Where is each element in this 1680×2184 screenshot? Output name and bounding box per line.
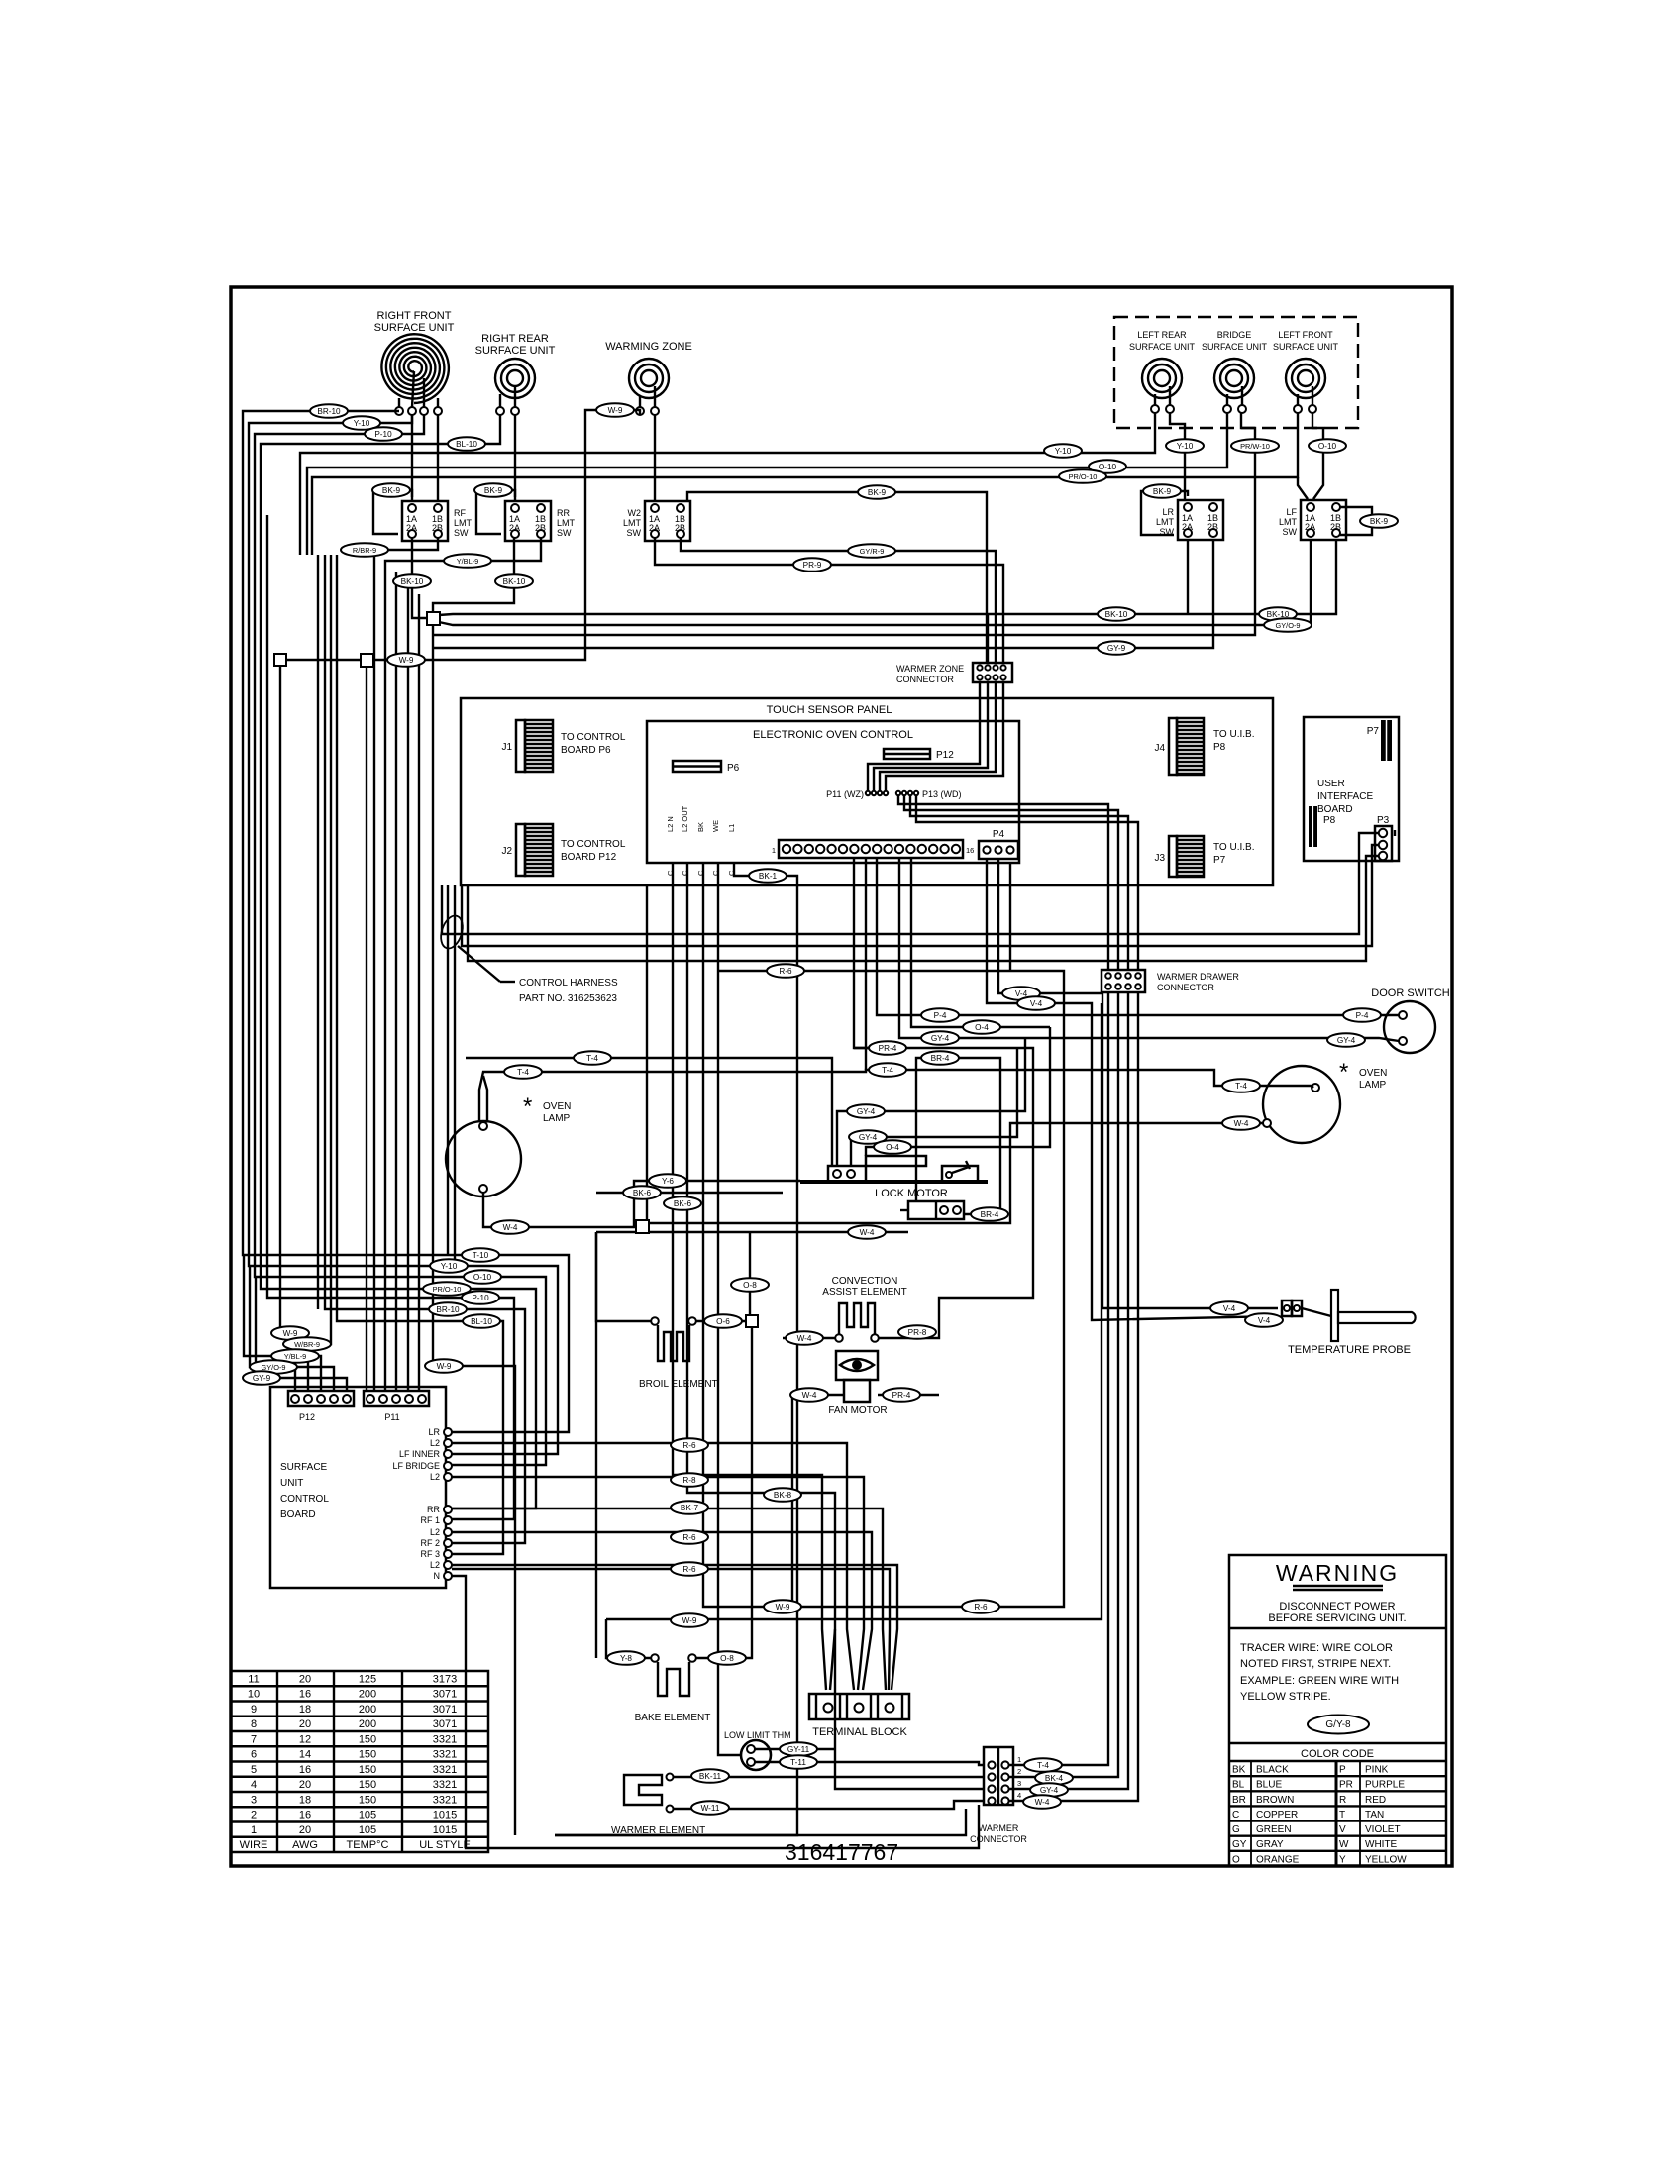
svg-text:BL: BL [1232,1780,1245,1791]
svg-text:CONNECTOR: CONNECTOR [896,675,954,684]
wire L2 R-6 y1457 [452,1443,854,1690]
wire tag O-10 [1089,460,1126,473]
wire tag O-10 [464,1270,501,1284]
wire tag W-11 [691,1801,729,1815]
connector P8 [1309,806,1336,847]
svg-text:O-10: O-10 [1099,463,1117,471]
wire tag BK-9 [858,485,895,499]
svg-text:J3: J3 [1154,853,1165,864]
svg-text:TEMP°C: TEMP°C [347,1839,389,1851]
wire tag W-4 [848,1225,886,1239]
svg-text:18: 18 [299,1704,311,1716]
svg-text:GY-4: GY-4 [1040,1786,1059,1795]
svg-text:V-4: V-4 [1258,1316,1271,1325]
wire W-9 to P12 pin1 [280,666,295,1391]
svg-text:P13 (WD): P13 (WD) [922,789,962,799]
wire R-6 y1622 [718,971,1064,1607]
wire tag Y-10 [1166,439,1204,453]
svg-text:W-9: W-9 [399,656,414,665]
wire tag O-6 [704,1314,742,1328]
svg-text:WARNING: WARNING [1276,1560,1399,1586]
svg-text:SW: SW [454,528,469,538]
svg-text:L1: L1 [727,824,736,832]
wire to P12 pin4 [250,1266,334,1391]
svg-text:Y/BL-9: Y/BL-9 [284,1352,307,1361]
wire tag BK-10 [1259,607,1297,621]
svg-text:LR: LR [1162,507,1174,517]
svg-text:P12: P12 [936,750,954,761]
svg-text:CONTROL: CONTROL [280,1494,329,1505]
node square broil [746,1315,758,1327]
svg-text:Y-10: Y-10 [1055,447,1072,456]
svg-text:W-4: W-4 [860,1228,875,1237]
EOC 16 pin connector row [772,840,975,858]
svg-text:R-8: R-8 [682,1476,696,1485]
wire drawer to warmer row4 W-4 [1009,992,1138,1801]
svg-text:W-9: W-9 [437,1362,452,1371]
wire stub BK-8 down [687,863,984,1789]
svg-text:BL-10: BL-10 [471,1317,492,1326]
svg-text:Y: Y [1339,1854,1346,1865]
wire tag BR-10 [310,404,348,418]
wire tag O-4 [874,1140,911,1154]
svg-text:P8: P8 [1323,815,1336,826]
wire tag W-4 [1222,1116,1260,1130]
svg-text:RIGHT REAR: RIGHT REAR [481,333,549,345]
svg-text:2: 2 [1017,1767,1021,1776]
svg-text:W: W [1339,1839,1349,1850]
wire tag Y-10 [430,1259,468,1273]
wire RF coil to switch 1A [411,415,413,501]
wire GY-4 lock2 [851,1048,1017,1166]
svg-text:T-11: T-11 [790,1758,806,1767]
svg-text:BK-10: BK-10 [1105,610,1128,619]
svg-text:L2: L2 [430,1527,440,1537]
wire tag Y-10 [343,416,380,430]
svg-text:T-4: T-4 [1235,1082,1247,1091]
wire tag O-8 [731,1278,769,1292]
wire PR/O-10 left front unit [312,413,1298,555]
user interface board [1304,717,1399,861]
svg-text:TOUCH SENSOR PANEL: TOUCH SENSOR PANEL [767,704,892,716]
terminal block [809,1694,909,1738]
svg-text:200: 200 [359,1718,376,1730]
wire low limit GY-11 [755,1748,835,1750]
svg-text:TRACER WIRE: WIRE COLOR: TRACER WIRE: WIRE COLOR [1240,1642,1393,1654]
surface unit RF coil [374,310,455,415]
wire N bottom [452,1576,979,1848]
svg-text:BK-10: BK-10 [401,577,424,586]
wire harness a [447,885,449,1255]
svg-text:125: 125 [359,1673,376,1685]
svg-text:LMT: LMT [1156,517,1175,527]
svg-text:20: 20 [299,1824,311,1836]
wire tag PR/O-10 [423,1282,471,1296]
svg-text:2: 2 [251,1810,257,1821]
svg-text:2A: 2A [1182,522,1193,532]
wire left vertical x321 [317,555,319,1309]
svg-text:TO U.I.B.: TO U.I.B. [1213,842,1255,853]
wire tag GY-9 [243,1371,280,1385]
svg-text:2A: 2A [649,523,660,533]
svg-text:105: 105 [359,1824,376,1836]
wire tag BK-10 [495,574,533,588]
svg-text:W-4: W-4 [1035,1798,1050,1807]
wire P13 pin2 drawer [904,796,1118,970]
svg-text:LMT: LMT [623,518,642,528]
wire tag PR/O-10 [1059,469,1106,483]
svg-text:150: 150 [359,1794,376,1806]
wire stub L2N down [673,863,826,1690]
wire tag P-4 [921,1008,959,1022]
svg-text:LAMP: LAMP [543,1113,571,1124]
wire tag GY-9 [1098,641,1135,655]
wire P3-3 harness [468,856,1379,961]
wire tag T-4 [574,1051,611,1065]
svg-text:Y-8: Y-8 [620,1654,632,1663]
svg-text:3321: 3321 [433,1779,457,1791]
wire W-4 fan upper [648,1123,1263,1223]
connector P6 bar [673,761,740,774]
svg-text:Y-10: Y-10 [354,419,370,428]
svg-text:2B: 2B [535,523,546,533]
svg-text:150: 150 [359,1764,376,1776]
wire fan L2 left [830,1629,835,1690]
wire tag T-4 [1024,1758,1062,1772]
svg-text:SURFACE UNIT: SURFACE UNIT [1273,342,1339,352]
wire tag PR-8 [898,1325,936,1339]
wire tag BR-10 [429,1302,467,1316]
wire tag W-4 [786,1331,823,1345]
svg-text:LF INNER: LF INNER [399,1449,441,1459]
svg-text:LF: LF [1286,507,1297,517]
svg-text:*: * [1339,1059,1348,1086]
svg-text:SW: SW [627,528,642,538]
svg-text:RF: RF [454,508,466,518]
wire zone pin4 to P11WZ [886,682,1003,790]
limit switch W2 LMT SW [623,501,690,541]
wire Y-6 y1192 [634,1181,800,1227]
svg-text:SURFACE UNIT: SURFACE UNIT [374,322,455,334]
wire P3-2 harness [462,845,1379,946]
svg-text:LOW LIMIT THM: LOW LIMIT THM [724,1730,791,1740]
wire tag V-4 [1017,996,1055,1010]
wire tag W-9 [271,1326,309,1340]
wire y654 LR 2B [433,540,1213,648]
svg-text:BK-8: BK-8 [774,1491,792,1500]
wire tag BK-1 [749,869,787,883]
svg-text:2A: 2A [509,523,520,533]
svg-text:2A: 2A [406,523,417,533]
svg-text:J2: J2 [501,846,512,857]
svg-text:TERMINAL BLOCK: TERMINAL BLOCK [812,1726,907,1738]
wire V-4 probe upper [998,859,1278,1308]
wire to P12 pin3 [244,1255,321,1391]
wire LR BK-9 jumper [1141,491,1188,535]
surface unit coil LEFT FRONT [1273,330,1339,413]
svg-text:T-10: T-10 [472,1251,489,1260]
svg-text:W-4: W-4 [797,1334,812,1343]
svg-text:P12: P12 [299,1412,315,1422]
svg-text:2B: 2B [1330,522,1341,532]
wire tag V-4 [1210,1301,1248,1315]
wire tag T-4 [504,1065,542,1079]
svg-text:GY-9: GY-9 [1107,644,1126,653]
svg-text:COLOR CODE: COLOR CODE [1301,1748,1374,1760]
wire tag T-4 [869,1063,906,1077]
svg-text:BK-10: BK-10 [503,577,526,586]
svg-text:P7: P7 [1367,726,1380,737]
wire W-4 fan lower [596,1231,908,1233]
wire RF coil to switch 1B [437,415,439,501]
svg-text:12: 12 [299,1733,311,1745]
wire L2 R-6 y1546 [452,1532,872,1690]
svg-text:UNIT: UNIT [280,1478,303,1489]
svg-text:L2: L2 [430,1438,440,1448]
wire tag W-9 [596,403,634,417]
svg-text:GY-4: GY-4 [859,1133,878,1142]
svg-text:R/BR-9: R/BR-9 [353,546,376,555]
svg-text:OVEN: OVEN [543,1101,571,1112]
svg-text:BR-4: BR-4 [981,1210,999,1219]
svg-text:BK-9: BK-9 [868,488,887,497]
EOC stub pin labels [666,805,736,876]
wire tag example G/Y-8 [1308,1716,1369,1734]
svg-text:BEFORE SERVICING UNIT.: BEFORE SERVICING UNIT. [1268,1612,1406,1624]
svg-text:T-4: T-4 [517,1068,529,1077]
wire tag BK-10 [1098,607,1135,621]
wire tag BR-4 [971,1207,1008,1221]
svg-text:Y-10: Y-10 [1177,442,1194,451]
wire GY-9 bridge return [432,624,434,1366]
svg-text:FAN MOTOR: FAN MOTOR [828,1405,887,1416]
svg-text:COPPER: COPPER [1256,1810,1298,1820]
svg-text:RR: RR [427,1505,440,1514]
wire tag T-4 [1222,1079,1260,1092]
wire R-6 P4 link [1009,863,1011,971]
svg-text:11: 11 [248,1673,259,1685]
wire to P11 pin5 [418,594,420,1391]
wire W-4 fan motor [792,1395,844,1607]
svg-text:BK-9: BK-9 [382,486,401,495]
svg-text:P4: P4 [993,829,1005,840]
wire zone pin3 to P11WZ [880,682,996,790]
svg-text:L2 OUT: L2 OUT [681,805,689,832]
wire GY-4 lock1 [837,1038,1025,1166]
wire W-9 node link [286,659,361,661]
svg-text:NOTED FIRST, STRIPE NEXT.: NOTED FIRST, STRIPE NEXT. [1240,1658,1391,1670]
wire tag GY/R-9 [848,544,895,558]
wire gauge table [231,1671,488,1852]
svg-text:DOOR SWITCH: DOOR SWITCH [1371,988,1449,999]
wire O-10 bridge unit [307,413,1227,555]
wire V-4 probe lower [987,859,1278,1320]
wire PR-9 W2 2A [655,538,1003,663]
wire BR-10 RF t1 [243,411,569,1432]
svg-text:CONNECTOR: CONNECTOR [1157,983,1214,992]
oven lamp right [1263,1059,1387,1143]
wire W-9 y1379 [433,1366,515,1835]
svg-text:1015: 1015 [433,1810,457,1821]
svg-text:VIOLET: VIOLET [1365,1824,1401,1835]
svg-text:V-4: V-4 [1030,999,1043,1008]
svg-text:P6: P6 [727,763,740,774]
wire L2 y1580 [452,1565,897,1690]
svg-text:P7: P7 [1213,855,1226,866]
temperature probe [1282,1290,1416,1356]
svg-text:LMT: LMT [1279,517,1298,527]
svg-text:GREEN: GREEN [1256,1824,1292,1835]
svg-text:3173: 3173 [433,1673,457,1685]
wire node fan upper BK-10 [439,540,1336,615]
svg-text:16: 16 [299,1689,311,1701]
wire tag T-11 [780,1755,817,1769]
surface unit control board [270,1387,446,1588]
svg-text:BK-9: BK-9 [1153,487,1172,496]
dashed enclosure left surface units [1114,317,1358,428]
svg-text:G: G [1232,1824,1240,1835]
wire RR BK-7 y1523 [452,1508,886,1690]
wire L2 bottom y1853 [555,1809,966,1835]
warmer zone connector [896,663,1012,684]
wire tag O-8 [708,1651,746,1665]
wire tag W-4 [491,1220,529,1234]
wire tag BK-6 [664,1196,701,1210]
wire tag Y/BL-9 [444,554,491,568]
wire T-4 lamp net [479,1070,1313,1122]
svg-text:3321: 3321 [433,1733,457,1745]
svg-text:RIGHT FRONT: RIGHT FRONT [377,310,452,322]
svg-text:GY-4: GY-4 [857,1107,876,1116]
svg-text:3321: 3321 [433,1794,457,1806]
svg-text:BL-10: BL-10 [456,440,477,449]
wire tag GY-11 [780,1742,817,1756]
wire tag BL-10 [448,437,485,451]
wire W-9 warming zone [367,410,640,1391]
svg-text:P-10: P-10 [472,1294,489,1302]
svg-text:RF 1: RF 1 [420,1515,440,1525]
wire LR 2A down [1187,540,1189,614]
svg-text:O-10: O-10 [473,1273,492,1282]
wire RR coil to switch 1A [514,415,516,501]
svg-text:3321: 3321 [433,1749,457,1761]
wire P3-1 harness [442,833,1379,934]
svg-text:LEFT FRONT: LEFT FRONT [1278,330,1333,340]
wire BL-10 to RF3 [337,555,503,1554]
svg-text:P-4: P-4 [1356,1011,1369,1020]
wire tag Y/BL-9 [271,1349,319,1363]
wire BK-10 RR 2A down [433,538,514,612]
svg-text:WHITE: WHITE [1365,1839,1398,1850]
svg-text:1: 1 [772,846,776,855]
wire tag R-6 [671,1438,708,1452]
svg-text:*: * [523,1093,532,1120]
wire stub W down y1635 [718,863,741,1755]
wire tag T-10 [462,1248,499,1262]
svg-text:4: 4 [1017,1791,1021,1800]
svg-text:UL STYLE: UL STYLE [419,1839,471,1851]
svg-text:1: 1 [1017,1755,1021,1764]
wire tag BK-9 [372,483,410,497]
svg-text:PINK: PINK [1365,1765,1389,1776]
svg-text:1015: 1015 [433,1824,457,1836]
wire tag P-4 [1343,1008,1381,1022]
surface unit RR coil [475,333,556,415]
surface unit coil LEFT REAR [1129,330,1196,413]
svg-text:R-6: R-6 [974,1603,988,1612]
svg-text:C: C [1232,1810,1239,1820]
svg-text:T-4: T-4 [586,1054,598,1063]
svg-text:O: O [1232,1854,1240,1865]
svg-text:3071: 3071 [433,1718,457,1730]
svg-text:O-8: O-8 [743,1281,757,1290]
svg-text:WIRE: WIRE [240,1839,268,1851]
svg-text:CONTROL HARNESS: CONTROL HARNESS [519,978,618,988]
svg-text:O-4: O-4 [886,1143,899,1152]
wire PR-4 convection [879,1048,1033,1338]
wire LF 1A V left [1298,477,1308,499]
wire to P11 pin3 [395,572,397,1391]
wire W-4 lock below [900,1209,908,1211]
wire Y/BL-9 RR 2B to P11 [385,538,541,1391]
svg-text:GY-4: GY-4 [1337,1036,1356,1045]
svg-text:W-9: W-9 [682,1616,697,1625]
svg-text:3: 3 [1017,1779,1021,1788]
svg-text:BOARD: BOARD [280,1509,316,1520]
wire tag BL-10 [463,1314,500,1328]
svg-text:SURFACE: SURFACE [280,1462,328,1473]
svg-text:R-6: R-6 [682,1565,696,1574]
wire tag GY-4 [847,1104,885,1118]
svg-text:WARMING ZONE: WARMING ZONE [605,341,692,353]
wire tag W-9 [671,1613,708,1627]
svg-text:W-11: W-11 [701,1804,720,1813]
warmer drawer connector [1102,970,1239,992]
svg-text:W-4: W-4 [802,1391,817,1400]
svg-text:8: 8 [251,1718,257,1730]
wire tag W/BR-9 [283,1337,331,1351]
svg-text:P11: P11 [384,1412,399,1422]
wire PR-4 y1058 [854,1047,1017,1049]
wire BK-9 RF jumper [373,490,412,534]
svg-text:14: 14 [299,1749,311,1761]
node square BK-10 junction [427,612,440,625]
wire L2 R-8 y1491 [452,1477,864,1690]
svg-text:18: 18 [299,1794,311,1806]
warmer element [611,1774,705,1837]
svg-text:105: 105 [359,1810,376,1821]
svg-text:W-9: W-9 [776,1603,790,1612]
svg-text:YELLOW: YELLOW [1365,1854,1407,1865]
svg-text:BRIDGE: BRIDGE [1217,330,1252,340]
svg-text:CONVECTION: CONVECTION [832,1276,898,1287]
svg-text:TEMPERATURE PROBE: TEMPERATURE PROBE [1288,1344,1411,1356]
svg-text:PR: PR [1339,1780,1353,1791]
svg-text:BK-11: BK-11 [699,1772,722,1781]
connector J1 [501,720,625,772]
wire BR-4 lock [916,1058,1000,1214]
svg-text:W-4: W-4 [503,1223,518,1232]
svg-text:20: 20 [299,1718,311,1730]
wire BK-10 RF 2A down [412,538,427,618]
wire harness b [454,885,456,1266]
svg-text:16: 16 [299,1810,311,1821]
bake element [635,1654,711,1723]
wire node fan lower GY/O-9 [439,540,1311,625]
wire R/BR-9 RF 2B to P11 [374,538,438,1391]
svg-text:RED: RED [1365,1795,1386,1806]
wire W2 1B feed BK-9 [687,492,987,663]
